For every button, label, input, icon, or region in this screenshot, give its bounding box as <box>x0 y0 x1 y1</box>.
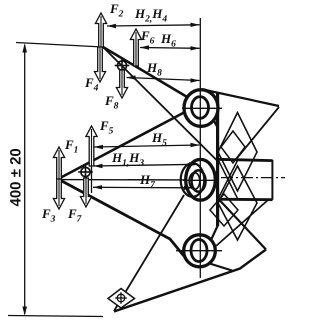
force arrow F6 <box>130 29 141 66</box>
diamond with position mark bottom left <box>108 289 135 309</box>
wire: horizontal centerline from bottom apex to middle boss <box>59 179 186 181</box>
svg-text:400 ± 20: 400 ± 20 <box>8 148 25 206</box>
brace from shaft corner to bottom web <box>216 200 268 246</box>
wire: diagonal bottom apex to top boss <box>59 112 185 179</box>
dimension H5 <box>94 145 200 147</box>
wire: thin diagonal from bottom tip to middle boss <box>114 195 184 311</box>
dimension 400+-20 vertical line <box>24 45 26 314</box>
force arrow F7 <box>80 178 91 207</box>
wire: bottom boss to bottom edge <box>208 263 232 271</box>
dimension H7 <box>93 186 193 189</box>
dimension H1,H3 <box>94 164 199 166</box>
plate vertical edge <box>216 94 219 227</box>
wire: plate to bottom boss <box>211 225 219 241</box>
wire: diagonal from top apex to shaft corner <box>103 47 218 161</box>
force arrow F5 <box>86 126 97 166</box>
force action lines <box>59 16 136 206</box>
extension line top <box>16 43 103 48</box>
diamond small lower <box>210 194 238 226</box>
diamond small upper <box>221 131 245 163</box>
vertical centerline through bosses <box>199 18 201 278</box>
dimension H2,H4 <box>107 25 200 26</box>
wire: top boss to plate <box>213 119 218 128</box>
shaft body <box>218 159 273 200</box>
dimension H6 <box>140 47 200 50</box>
position mark top <box>115 58 130 73</box>
diamond large upper <box>218 113 257 192</box>
position mark bottom <box>78 165 93 180</box>
boss bottom <box>184 235 216 267</box>
cross brace X in shaft <box>218 160 238 200</box>
boss top <box>184 90 218 127</box>
wire: bracket bottom edge <box>114 250 266 312</box>
wire: top right edge from boss to right apex <box>208 91 280 107</box>
force arrow F4 <box>94 47 105 82</box>
boss middle <box>186 159 216 200</box>
force arrow F1 <box>53 147 64 179</box>
dimension H8 <box>127 78 200 81</box>
wire: steep edge from right apex down to shaft <box>219 107 279 180</box>
extension line bottom <box>8 316 103 317</box>
force arrow F2 <box>95 13 106 47</box>
force arrow F3 <box>53 179 64 209</box>
wire: lower web edge from bottom apex down to bottom boss <box>59 180 188 262</box>
wire: top edge from apex to top boss <box>103 47 188 98</box>
shaft dash-dot centerline <box>221 177 285 179</box>
force arrow F8 <box>116 70 127 98</box>
diamond large lower <box>218 166 257 240</box>
wire: edge from bottom right apex to shaft corner <box>219 199 267 250</box>
extension line at F5 <box>91 147 93 193</box>
